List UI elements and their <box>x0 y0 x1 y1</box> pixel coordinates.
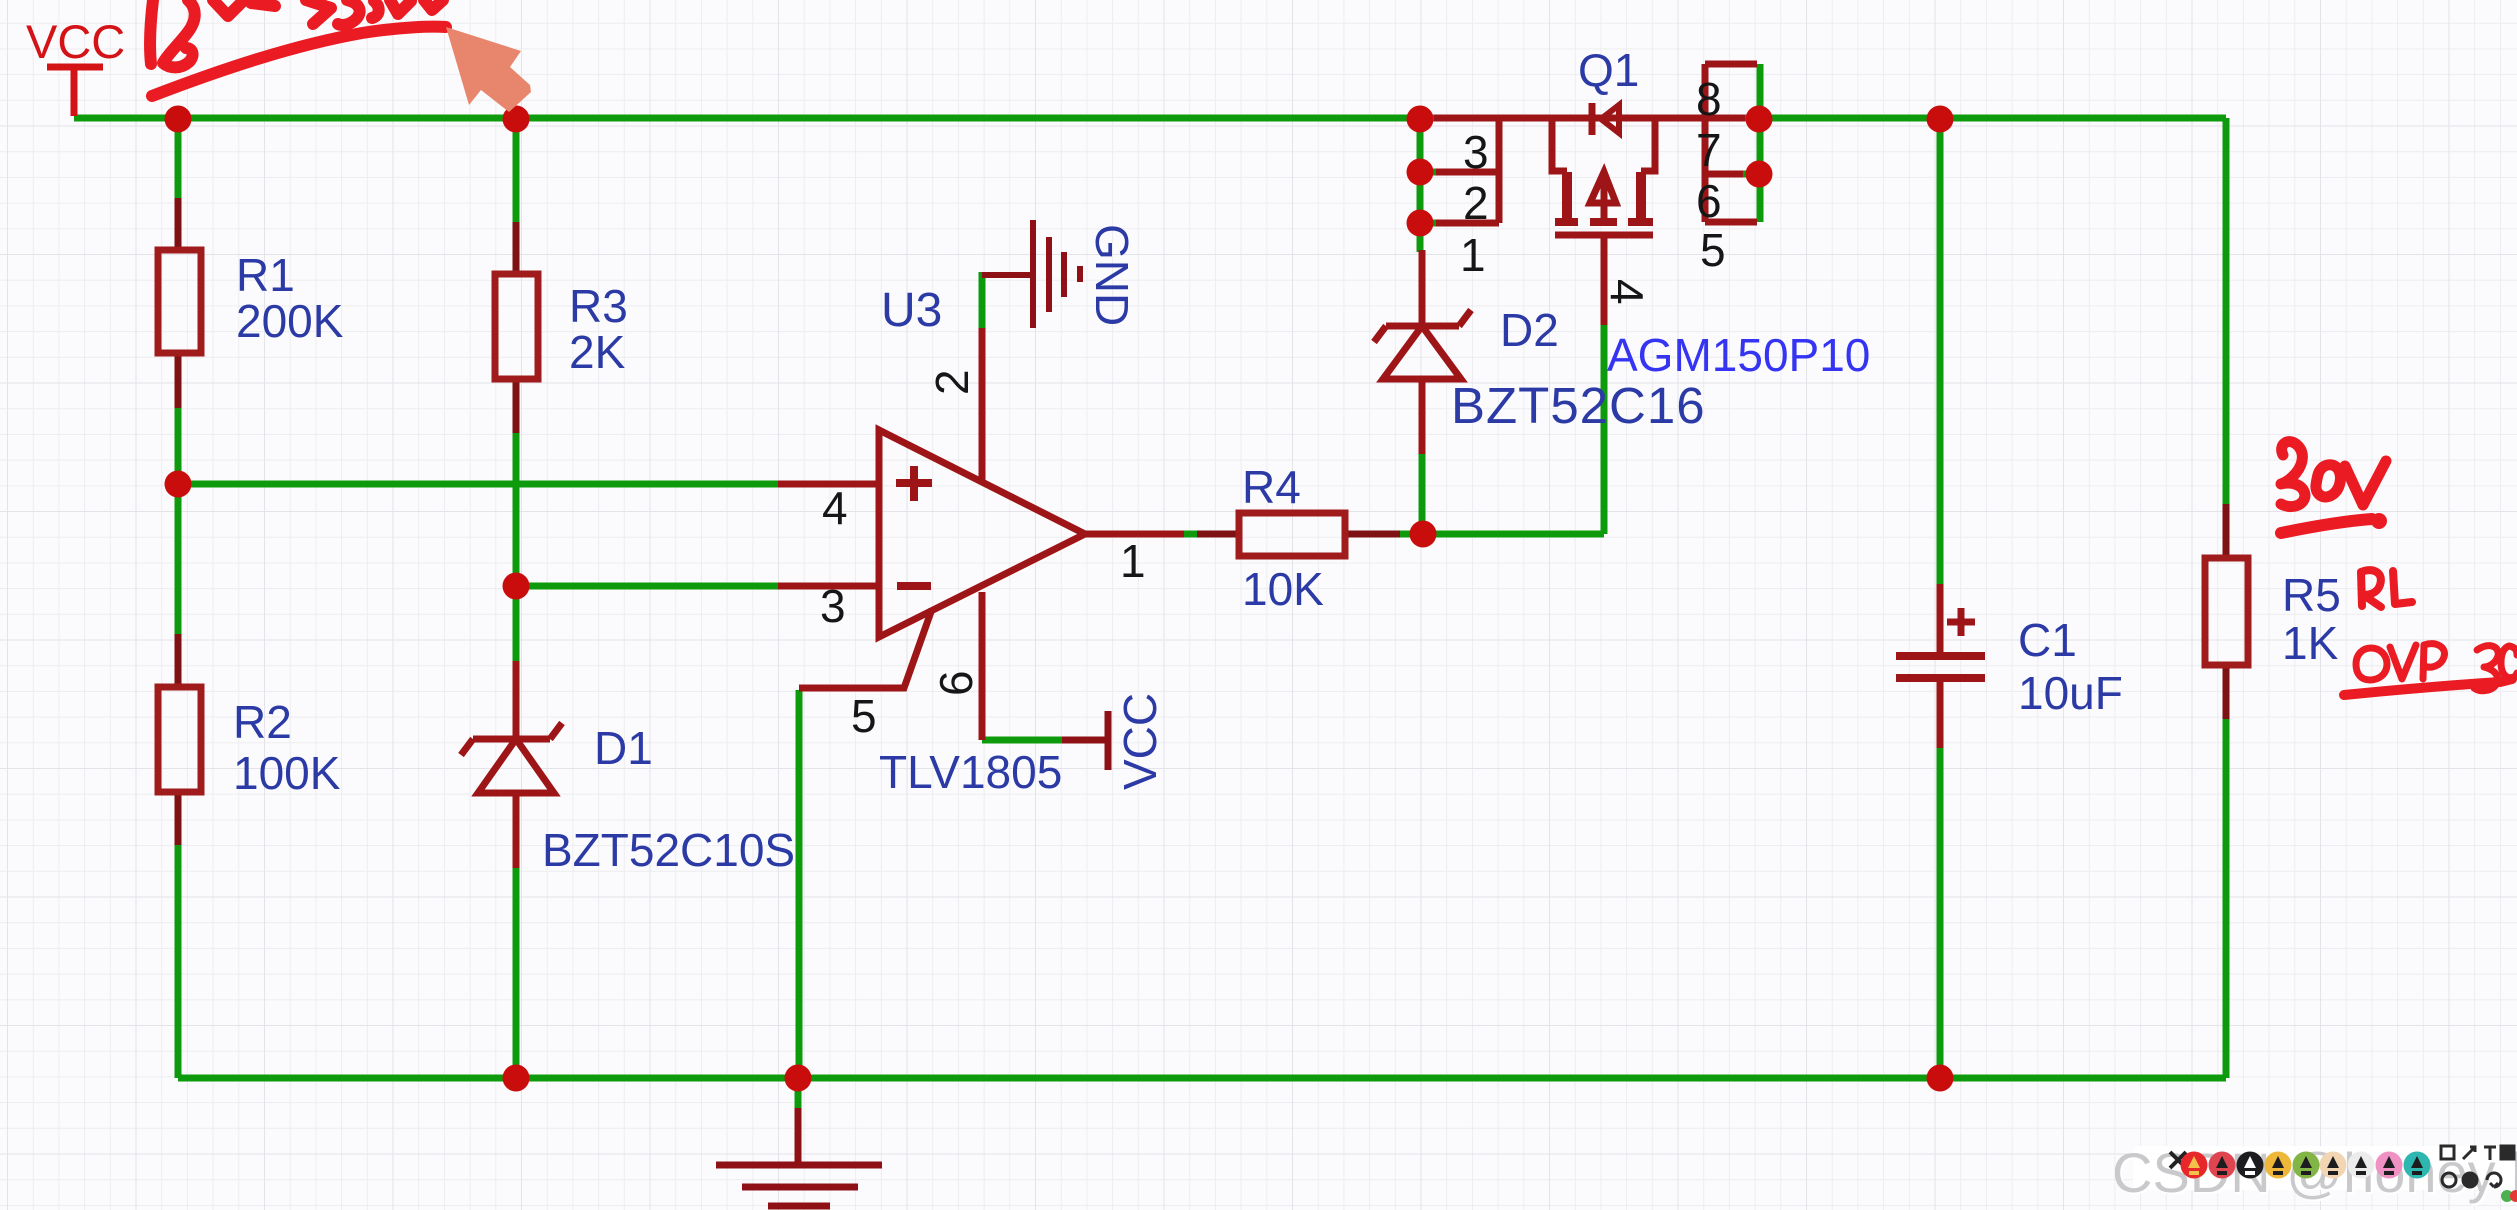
wire D1 bottom to rail <box>513 868 520 1078</box>
node Q1 pin3 <box>1407 159 1434 186</box>
svg-text:R2: R2 <box>233 696 292 748</box>
svg-text:U3: U3 <box>881 284 942 337</box>
wire R4 right to node <box>1400 531 1604 538</box>
wire pin5 drop <box>796 690 803 1078</box>
node Q1 pin2 <box>1407 210 1434 237</box>
zener diode D1 <box>461 661 562 868</box>
toolbar close X <box>2170 1152 2186 1168</box>
svg-text:2: 2 <box>926 369 978 395</box>
svg-text:3: 3 <box>1463 126 1489 178</box>
svg-text:1: 1 <box>1460 229 1486 281</box>
svg-text:GND: GND <box>1086 224 1138 326</box>
handwriting RL <box>2361 570 2412 607</box>
Q1 gate bar <box>1555 232 1653 239</box>
wire D2 top / Q1 left pins column <box>1417 115 1424 252</box>
LABELS (blue designators/values) <box>26 15 2341 876</box>
wire C1 bottom lead <box>1937 748 1944 1078</box>
Q1 source drop <box>1552 118 1567 171</box>
Q1 body diode <box>1589 103 1596 135</box>
svg-text:D2: D2 <box>1500 304 1559 356</box>
wire R2 bottom to bottom rail <box>178 845 2226 1078</box>
wire output nub <box>1184 531 1197 538</box>
svg-text:10K: 10K <box>1242 563 1324 615</box>
wire C1 top lead <box>1937 115 1944 584</box>
svg-text:3: 3 <box>820 580 846 632</box>
VCC power symbol top-left <box>47 67 103 116</box>
svg-text:R3: R3 <box>569 280 628 332</box>
node R4-D2-gate <box>1410 521 1437 548</box>
svg-text:6: 6 <box>930 670 982 696</box>
wire Q1 pin3 nub <box>1420 169 1436 176</box>
handwriting swoosh under 12V-30V <box>152 27 446 96</box>
svg-text:1K: 1K <box>2282 617 2339 669</box>
wire Q1 pin2 nub <box>1420 220 1436 227</box>
svg-text:5: 5 <box>1700 224 1726 276</box>
toolbar white strip <box>2133 1146 2517 1190</box>
transistor Q1 (P-MOSFET with body diode) <box>1434 64 1757 325</box>
node rail-D1 <box>503 1065 530 1092</box>
svg-text:4: 4 <box>822 482 848 534</box>
capacitor C1 <box>1896 584 1985 748</box>
toolbar pen glyphs in circles <box>2188 1156 2423 1175</box>
handwriting "12V-30V" top (cut off) <box>150 0 443 67</box>
mouse cursor (salmon arrow) <box>446 27 531 112</box>
svg-text:5: 5 <box>851 690 877 742</box>
Q1 right pin bracket <box>1705 64 1757 222</box>
GND power symbol (pin 2) <box>982 220 1080 328</box>
svg-text:1: 1 <box>1120 535 1146 587</box>
node R1-R2 divider <box>165 471 192 498</box>
WATERMARK + TOOLBAR <box>2112 1141 2517 1206</box>
handwriting OVP 30 <box>2356 644 2517 691</box>
resistor R4 <box>1197 513 1400 556</box>
svg-text:C1: C1 <box>2018 614 2077 666</box>
wire R5 bottom lead <box>2223 719 2230 1078</box>
handwriting 30V underline <box>2281 519 2372 533</box>
VCC power symbol (pin 6) <box>1062 711 1108 770</box>
resistor R1 <box>158 198 201 408</box>
svg-text:7: 7 <box>1696 124 1722 176</box>
handwriting 30V (right) <box>2281 442 2386 507</box>
node rail-C1 <box>1927 1065 1954 1092</box>
svg-text:4: 4 <box>1601 279 1653 305</box>
wire top VCC rail <box>74 115 1434 122</box>
Q1 gate pin 4 <box>1601 235 1608 325</box>
toolbar tiny colored icons far right <box>2501 1190 2517 1202</box>
PIN NUMBERS (black) <box>820 73 1726 742</box>
op-amp U3 <box>778 328 1239 740</box>
HANDWRITTEN ANNOTATIONS (red marker) <box>150 0 2517 695</box>
wire Q1 pin7 nub <box>1743 171 1760 178</box>
toolbar color circles <box>2181 1152 2431 1179</box>
svg-text:R1: R1 <box>236 249 295 301</box>
wire R1 top lead <box>175 115 182 198</box>
wire pin2 to GND <box>979 272 986 328</box>
wire GND stem top <box>795 1078 802 1112</box>
wire R5 top lead <box>2223 118 2230 504</box>
wire top rail right of Q1 <box>1745 115 2226 122</box>
node rail-GND <box>785 1065 812 1092</box>
svg-text:D1: D1 <box>594 722 653 774</box>
svg-text:VCC: VCC <box>1114 693 1166 790</box>
resistor R2 <box>158 634 201 845</box>
Q1 channel segments <box>1555 218 1653 226</box>
svg-text:10uF: 10uF <box>2018 667 2123 719</box>
node VCC-R1 <box>165 106 192 133</box>
wire D2 bottom <box>1419 454 1426 534</box>
svg-text:2K: 2K <box>569 326 626 378</box>
svg-text:VCC: VCC <box>26 15 125 68</box>
svg-text:R4: R4 <box>1242 461 1301 513</box>
svg-text:AGM150P10: AGM150P10 <box>1607 329 1870 381</box>
wire node to Q1 gate <box>1601 325 1608 534</box>
zener diode D2 <box>1374 250 1471 454</box>
svg-text:6: 6 <box>1696 175 1722 227</box>
svg-text:BZT52C16: BZT52C16 <box>1451 377 1706 434</box>
resistor R3 <box>495 222 538 433</box>
Q1 substrate arrow <box>1590 172 1616 222</box>
svg-text:BZT52C10S: BZT52C10S <box>542 824 795 876</box>
wire R3 top lead <box>513 115 520 222</box>
ground symbol (bottom) <box>716 1108 882 1206</box>
toolbar small icons right <box>2441 1146 2514 1187</box>
svg-text:R5: R5 <box>2282 569 2341 621</box>
wire R1-R2 node to + input <box>178 408 782 484</box>
wire pin6 to VCC <box>982 737 1062 744</box>
Q1 drain drop <box>1641 118 1655 171</box>
svg-text:2: 2 <box>1463 177 1489 229</box>
svg-text:200K: 200K <box>236 295 344 347</box>
svg-text:100K: 100K <box>233 747 341 799</box>
Q1 main rail segment <box>1434 115 1745 122</box>
resistor R5 <box>2205 504 2248 719</box>
WIRES-GREEN <box>74 64 2226 1112</box>
node VCC-C1 <box>1927 106 1954 133</box>
wire Q1 right column <box>1757 64 1764 222</box>
svg-text:8: 8 <box>1696 73 1722 125</box>
svg-text:Q1: Q1 <box>1578 44 1639 96</box>
handwriting OVP 30 underline <box>2344 679 2512 695</box>
node VCC-Q1 left <box>1407 106 1434 133</box>
node R3-D1 <box>503 573 530 600</box>
svg-text:TLV1805: TLV1805 <box>879 746 1062 798</box>
node VCC-R3 <box>503 106 530 133</box>
wire R2 top lead from node <box>175 484 182 634</box>
wire R3-D1 node to - input <box>516 433 782 661</box>
node Q1 pin7 <box>1746 161 1773 188</box>
node Q1 pin8 <box>1746 106 1773 133</box>
Q1 left pin bracket <box>1436 118 1499 223</box>
